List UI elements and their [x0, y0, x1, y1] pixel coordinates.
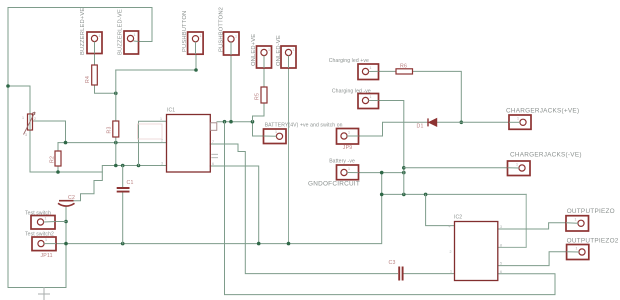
- wire R4 bottom: [95, 85, 116, 93]
- trimmer R1: [22, 112, 36, 137]
- svg-text:JP11: JP11: [41, 253, 53, 259]
- connector J4 PUSHBOTTON2: [219, 7, 240, 55]
- wire trimmer top branch: [8, 86, 30, 114]
- svg-text:1: 1: [370, 95, 372, 99]
- resistor R4: [85, 65, 97, 85]
- svg-text:PUSHBOTTON2: PUSHBOTTON2: [219, 7, 225, 52]
- wire diode line: [359, 122, 510, 136]
- svg-text:R5: R5: [255, 93, 261, 100]
- resistor R2: [50, 151, 62, 166]
- node R4 junction: [114, 92, 118, 96]
- wire trimmer bottom to gnd rail: [30, 130, 167, 172]
- connector J7 Charging led +ve: [329, 58, 379, 80]
- connector JP11 Test switch: [25, 210, 56, 229]
- svg-text:1: 1: [45, 238, 47, 242]
- svg-text:JP9: JP9: [343, 145, 353, 151]
- svg-text:IC1: IC1: [167, 108, 175, 114]
- wire net to IC1 pin2 left: [58, 142, 167, 144]
- node battery plus junctions: [223, 120, 255, 124]
- node diode line junction: [460, 121, 464, 125]
- svg-text:ONLED+VE: ONLED+VE: [251, 34, 257, 66]
- svg-text:Test switch: Test switch: [25, 210, 51, 216]
- connector J2 BUZZERLED-VE: [118, 9, 139, 55]
- svg-text:IC2: IC2: [454, 215, 462, 221]
- ground cross symbol: [39, 288, 50, 300]
- diode D1: [417, 118, 437, 129]
- wire C2 bottom column: [65, 206, 67, 222]
- svg-text:1: 1: [348, 167, 350, 171]
- wire onled+ to R5: [253, 68, 265, 122]
- connector J5 ONLED+VE: [251, 34, 272, 68]
- wire staircase C2 to gnd rail: [66, 172, 102, 201]
- wire top loop buzzer net: [8, 8, 152, 288]
- svg-text:CHARGERJACKS(+VE): CHARGERJACKS(+VE): [506, 107, 579, 114]
- connector CHARGERJACKS(-VE): [508, 151, 582, 175]
- svg-text:1: 1: [576, 247, 578, 251]
- svg-text:C3: C3: [389, 260, 396, 266]
- svg-text:OUTPUTPIEZO2: OUTPUTPIEZO2: [567, 238, 619, 245]
- svg-text:3: 3: [25, 133, 27, 137]
- connector J6 ONLED-VE: [276, 35, 296, 68]
- svg-text:BUZZERLED+VE: BUZZERLED+VE: [80, 8, 86, 55]
- connector J8 Charging led -ve: [332, 88, 379, 108]
- svg-text:1: 1: [235, 35, 237, 39]
- svg-text:1: 1: [268, 48, 270, 52]
- wire gnd long horizontal: [56, 173, 382, 244]
- wire pushbutton column: [115, 70, 117, 166]
- capacitor C1: [117, 180, 134, 192]
- svg-text:1: 1: [370, 66, 372, 70]
- svg-text:1: 1: [575, 218, 577, 222]
- resistor R6: [396, 64, 413, 75]
- svg-text:1: 1: [99, 34, 101, 38]
- svg-text:PUSHBUTTON: PUSHBUTTON: [182, 11, 188, 52]
- svg-text:Charging led +ve: Charging led +ve: [329, 58, 369, 64]
- svg-text:C2: C2: [68, 195, 75, 201]
- svg-text:6: 6: [500, 270, 502, 274]
- IC1: [160, 108, 218, 173]
- svg-text:CHARGERJACKS(-VE): CHARGERJACKS(-VE): [510, 151, 582, 158]
- resistor R5: [255, 87, 268, 103]
- svg-text:1: 1: [293, 48, 295, 52]
- wire battery minus net: [359, 172, 404, 174]
- node C2 junction: [64, 220, 68, 224]
- wire gnd to IC2 right pin: [498, 194, 526, 247]
- node mid junction: [114, 141, 118, 145]
- wire pushbutton2 column: [230, 55, 232, 122]
- svg-text:OUTPUTPIEZO: OUTPUTPIEZO: [567, 208, 615, 215]
- connector JP11 Test switch2: [25, 231, 56, 259]
- wire J1 to R4: [94, 54, 96, 66]
- op-amp U1 hidden outline: [138, 124, 163, 139]
- wire gnd to IC2 pin4: [426, 194, 454, 225]
- wire pushbutton horizontal: [116, 54, 196, 70]
- svg-text:R6: R6: [400, 64, 407, 70]
- svg-text:6: 6: [212, 162, 214, 166]
- node gnd horizontal junctions: [64, 242, 290, 246]
- svg-text:8: 8: [500, 244, 502, 248]
- node R2 bottom junction: [56, 170, 60, 174]
- svg-text:C1: C1: [127, 180, 134, 186]
- svg-text:GNDOFCIRCUIT: GNDOFCIRCUIT: [308, 180, 360, 187]
- wire gnd middle horizontal: [382, 193, 527, 195]
- svg-text:2: 2: [34, 117, 36, 121]
- svg-text:Battery -ve: Battery -ve: [329, 159, 355, 165]
- wire IC2 to outputpiezo2: [498, 252, 567, 266]
- svg-text:1: 1: [200, 34, 202, 38]
- svg-text:3: 3: [500, 225, 502, 229]
- node gnd-line junctions: [114, 164, 140, 168]
- connector CHARGERJACKS(+VE): [506, 107, 579, 129]
- wire battery plus line: [217, 122, 264, 136]
- svg-text:ONLED-VE: ONLED-VE: [276, 35, 282, 66]
- svg-text:5: 5: [500, 262, 502, 266]
- connector Battery -ve: [308, 159, 360, 188]
- IC2: [449, 215, 503, 281]
- svg-text:D1: D1: [417, 124, 424, 130]
- svg-text:1: 1: [22, 116, 24, 120]
- svg-text:Test switch2: Test switch2: [25, 231, 54, 237]
- svg-text:3: 3: [161, 162, 163, 166]
- wire chargerjack minus: [404, 167, 508, 169]
- node pushbutton junction: [194, 68, 198, 72]
- svg-text:1: 1: [517, 117, 519, 121]
- wire charging plus net: [379, 71, 462, 122]
- svg-text:R2: R2: [50, 156, 56, 163]
- wire IC1 pin3-right down: [210, 166, 258, 244]
- wire IC2 to outputpiezo: [498, 223, 566, 229]
- resistor R3: [107, 121, 119, 137]
- node wiper junction: [64, 141, 68, 145]
- connector OUTPUTPIEZO2: [567, 238, 619, 260]
- svg-text:1: 1: [348, 131, 350, 135]
- node battery minus junctions: [380, 171, 406, 175]
- svg-text:1: 1: [450, 270, 452, 274]
- svg-text:1: 1: [160, 117, 162, 121]
- wire trimmer wiper: [33, 121, 66, 143]
- svg-text:R4: R4: [85, 76, 91, 83]
- node big-loop junction: [6, 84, 10, 88]
- svg-text:2: 2: [161, 139, 163, 143]
- svg-text:2: 2: [450, 250, 452, 254]
- svg-text:7: 7: [212, 140, 214, 144]
- wire test switch stub: [56, 221, 67, 223]
- node chargerjack minus junction: [402, 166, 406, 170]
- wire C1 stubs: [122, 166, 124, 244]
- connector J1 BUZZERLED+VE: [80, 8, 102, 55]
- wire long loop to IC2 pin bottom: [225, 122, 556, 295]
- capacitor C2: [58, 195, 75, 206]
- svg-text:1: 1: [275, 130, 277, 134]
- connector JP9: [337, 129, 359, 152]
- wire R2 top stub: [57, 143, 59, 172]
- wire IC1 pin1 left: [139, 121, 167, 165]
- connector OUTPUTPIEZO: [566, 208, 615, 231]
- svg-text:1: 1: [45, 217, 47, 221]
- svg-text:4: 4: [449, 225, 451, 229]
- svg-text:1: 1: [516, 163, 518, 167]
- svg-text:R3: R3: [107, 126, 113, 133]
- connector J3 PUSHBUTTON: [182, 11, 203, 55]
- wire onled- long column: [288, 68, 290, 244]
- svg-text:BATTERY(4V) +ve and switch on: BATTERY(4V) +ve and switch on: [265, 123, 343, 129]
- svg-text:BUZZERLED-VE: BUZZERLED-VE: [118, 9, 124, 55]
- svg-text:Charging led -ve: Charging led -ve: [332, 88, 371, 94]
- wire charging minus column: [379, 101, 404, 195]
- connector J9 BATTERY +ve: [264, 123, 343, 144]
- capacitor C3: [389, 260, 403, 281]
- wire IC1 pin2-right to C3 to IC2: [210, 144, 453, 274]
- node gnd middle junctions: [380, 193, 428, 197]
- svg-text:1: 1: [134, 33, 136, 37]
